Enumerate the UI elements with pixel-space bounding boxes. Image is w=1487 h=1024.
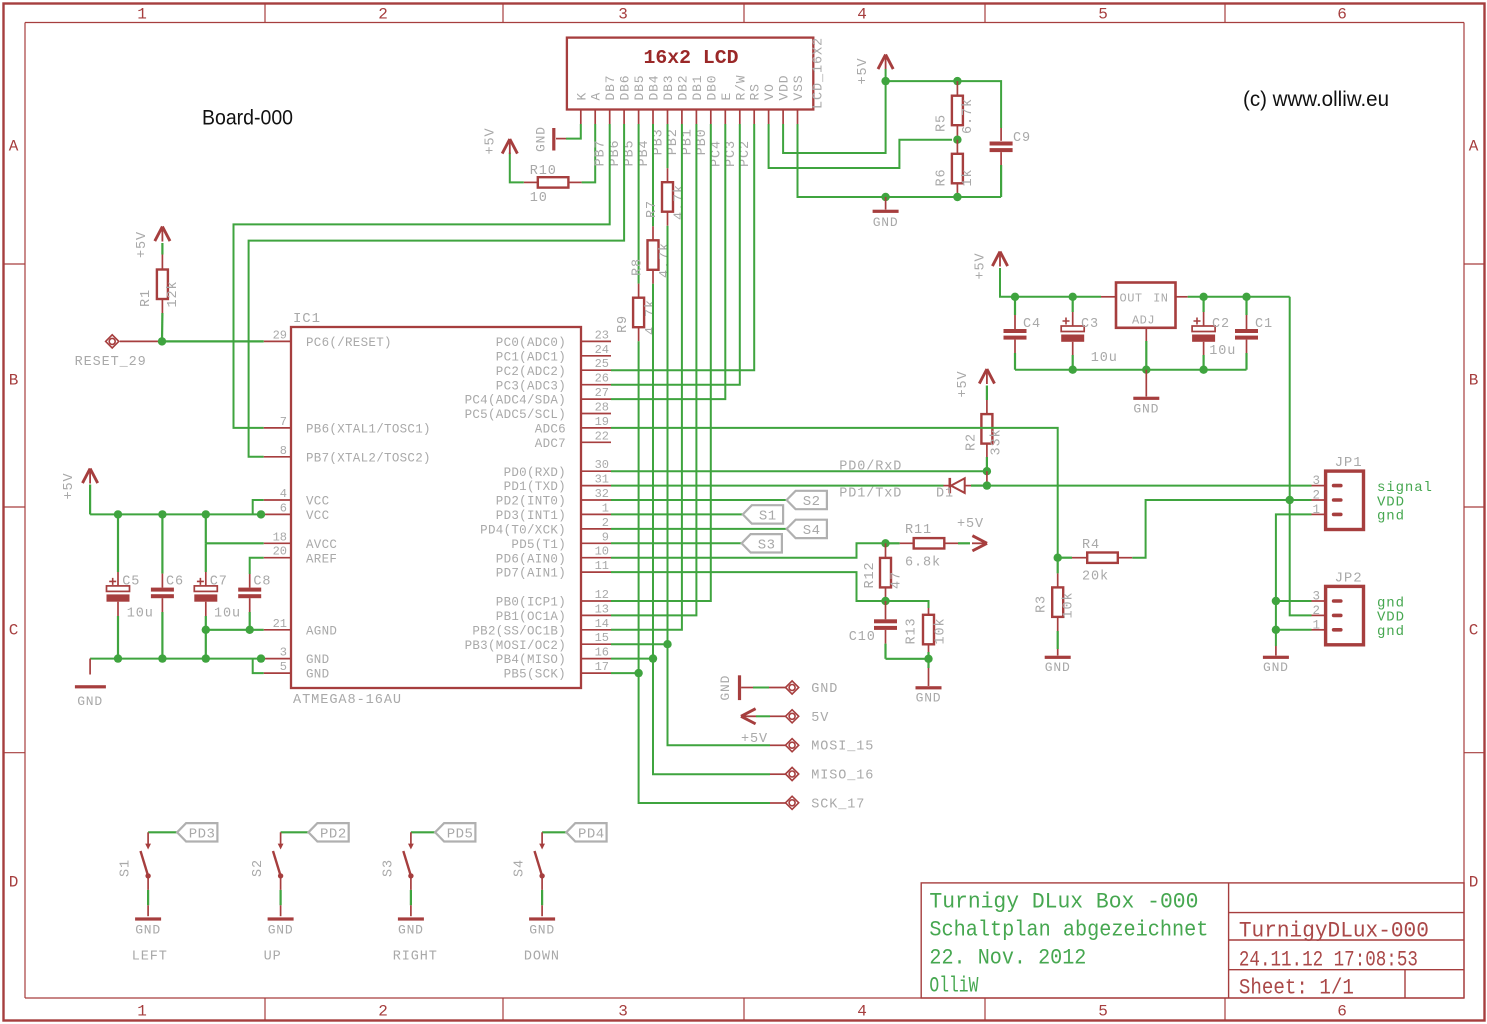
junction C7 AGND	[202, 626, 210, 634]
svg-text:10k: 10k	[1062, 591, 1077, 618]
svg-text:4.7k: 4.7k	[673, 184, 688, 220]
capacitor C6	[151, 514, 184, 658]
svg-text:Sheet: 1/1: Sheet: 1/1	[1239, 976, 1354, 1001]
svg-text:VSS: VSS	[791, 75, 806, 101]
wire pin16 to PB4 line	[611, 658, 653, 660]
ground GND left rail	[75, 659, 106, 709]
svg-text:21: 21	[273, 617, 287, 631]
wire K to GND	[556, 124, 581, 139]
svg-text:PD5: PD5	[447, 826, 474, 842]
svg-text:10k: 10k	[934, 617, 949, 644]
junction R2 PD0	[983, 467, 991, 475]
pad SCK_17	[786, 796, 866, 812]
ground GND pad symbol	[718, 675, 741, 701]
junction C1 top	[1242, 293, 1250, 301]
junction PB3 pin15	[663, 640, 671, 648]
svg-text:4: 4	[857, 1003, 867, 1021]
ground GND at regulator	[1133, 370, 1159, 417]
net label PB5	[623, 139, 638, 166]
supply +5V above VDD rail	[856, 55, 893, 85]
svg-text:C7: C7	[210, 575, 228, 590]
wire net PC4 E to pin27	[611, 124, 725, 399]
svg-text:AVCC: AVCC	[306, 538, 337, 552]
svg-text:PB5(SCK): PB5(SCK)	[504, 668, 566, 682]
net label PB3	[652, 128, 667, 155]
svg-text:PD3: PD3	[189, 826, 216, 842]
svg-text:24.11.12 17:08:53: 24.11.12 17:08:53	[1239, 948, 1418, 973]
junction C6 top	[158, 510, 166, 518]
svg-text:D: D	[1469, 874, 1479, 892]
svg-text:3: 3	[1312, 474, 1320, 488]
wire net PB3 upper	[667, 124, 669, 168]
wire JP1 pin2 stub	[1290, 499, 1326, 501]
resistor R5 6.7k	[935, 81, 976, 140]
net label PB0	[695, 128, 710, 155]
supply +5V above R1	[135, 227, 170, 259]
junction JP2 pin3	[1272, 597, 1280, 605]
wire JP1 pin1 to ground rail	[1276, 514, 1326, 646]
svg-text:PB3(MOSI/OC2): PB3(MOSI/OC2)	[465, 639, 566, 653]
svg-text:+5V: +5V	[956, 370, 971, 397]
svg-text:R3: R3	[1035, 595, 1050, 613]
wire pin10 PD6 to R11 node	[611, 543, 886, 557]
resistor R3 10k	[1035, 558, 1077, 649]
svg-text:R7: R7	[645, 200, 660, 218]
voltage regulator U1 OUT IN ADJ	[1116, 283, 1176, 328]
svg-text:20k: 20k	[1082, 570, 1109, 585]
wire net PB5 lower to pin17 and SCK	[639, 341, 786, 803]
supply +5V at R10	[484, 127, 518, 154]
resistor R8 4.7k	[630, 226, 673, 283]
svg-text:DB2: DB2	[675, 75, 690, 101]
wire VDD to +5V	[783, 81, 886, 153]
wire net PB7 DB7 to XTAL1	[234, 124, 610, 428]
title block text TurnigyDLux-000	[1239, 919, 1429, 944]
svg-text:R12: R12	[863, 561, 878, 588]
net label PB2	[666, 128, 681, 155]
wire net PB2 DB2 to pin14	[611, 124, 682, 630]
svg-text:10u: 10u	[127, 607, 154, 622]
svg-text:S2: S2	[803, 494, 821, 510]
capacitor C5 10u polarized	[107, 514, 154, 658]
svg-text:4.7k: 4.7k	[658, 242, 673, 278]
svg-text:3: 3	[618, 6, 628, 24]
resistor R2 33k	[965, 400, 1005, 471]
svg-text:5: 5	[280, 660, 287, 674]
wire ADJ to ground	[1145, 328, 1147, 370]
label LCD_16X2	[812, 37, 827, 109]
wire regulator ground rail	[1015, 369, 1247, 371]
svg-text:R9: R9	[616, 315, 631, 333]
IC1 right pin stubs and numbers	[581, 328, 611, 674]
wire pin15 to PB3 line	[611, 643, 668, 645]
capacitor C3 10u polarized	[1061, 297, 1118, 370]
svg-text:22. Nov. 2012: 22. Nov. 2012	[929, 946, 1086, 971]
svg-text:1: 1	[137, 6, 147, 24]
svg-text:22: 22	[595, 429, 609, 443]
svg-text:R10: R10	[530, 164, 557, 179]
svg-text:PC0(ADC0): PC0(ADC0)	[496, 336, 566, 350]
svg-text:DB3: DB3	[661, 75, 676, 101]
svg-text:27: 27	[595, 386, 609, 400]
junction GND rail left	[881, 193, 889, 201]
svg-text:1k: 1k	[961, 168, 976, 186]
capacitor C2 10u polarized	[1192, 297, 1236, 370]
junction C3 top	[1069, 293, 1077, 301]
junction R12 C10 R13	[881, 597, 889, 605]
svg-text:33k: 33k	[989, 428, 1004, 455]
wire RESET to pin29	[120, 340, 264, 342]
text (c) www.olliw.eu	[1243, 88, 1389, 111]
svg-text:DOWN: DOWN	[524, 950, 560, 965]
svg-text:D: D	[9, 874, 19, 892]
svg-text:DB6: DB6	[618, 75, 633, 101]
svg-text:gnd: gnd	[1377, 624, 1405, 640]
svg-text:PC3(ADC3): PC3(ADC3)	[496, 379, 566, 393]
svg-text:16: 16	[595, 646, 609, 660]
svg-text:GND: GND	[1133, 402, 1159, 417]
flag S4	[787, 520, 827, 539]
svg-text:C3: C3	[1081, 317, 1099, 332]
svg-text:Turnigy DLux Box -000: Turnigy DLux Box -000	[929, 889, 1198, 914]
junction C3 bottom	[1069, 366, 1077, 374]
wire regulator IN rail	[1176, 296, 1290, 298]
svg-text:10u: 10u	[214, 607, 241, 622]
svg-text:1: 1	[602, 501, 609, 515]
svg-text:+5V: +5V	[957, 517, 984, 532]
capacitor C1	[1235, 297, 1273, 370]
junction PB4 pin16	[649, 654, 657, 662]
wire +5V rail to R5 and C9	[886, 81, 1002, 141]
svg-text:OlliW: OlliW	[929, 974, 979, 999]
svg-text:GND: GND	[306, 653, 329, 667]
svg-text:2: 2	[1312, 604, 1320, 618]
junction +5V VDD	[881, 77, 889, 85]
svg-text:VDD: VDD	[777, 75, 792, 101]
svg-text:IC1: IC1	[293, 311, 321, 327]
svg-text:6.7k: 6.7k	[961, 98, 976, 134]
svg-text:7: 7	[280, 415, 287, 429]
IC U1 IC1 ATMEGA8-16AU box	[291, 311, 581, 708]
svg-text:15: 15	[595, 631, 609, 645]
svg-text:+5V: +5V	[484, 127, 499, 154]
capacitor C9	[990, 131, 1031, 197]
svg-text:B: B	[1469, 372, 1479, 390]
svg-text:PD2: PD2	[320, 826, 347, 842]
junction C2 top	[1199, 293, 1207, 301]
flag S3	[742, 534, 782, 553]
connector JP2	[1312, 571, 1404, 645]
supply +5V at regulator output	[974, 252, 1008, 280]
svg-text:+5V: +5V	[741, 732, 768, 747]
svg-text:30: 30	[595, 458, 609, 472]
svg-text:GND: GND	[916, 691, 942, 706]
svg-text:VO: VO	[762, 83, 777, 100]
wire +5V to R2	[986, 386, 988, 401]
wire net PC3 R/W to pin26	[611, 124, 740, 385]
junction R5 R6 VO	[953, 136, 961, 144]
svg-text:Schaltplan abgezeichnet: Schaltplan abgezeichnet	[929, 918, 1208, 943]
svg-text:R8: R8	[630, 258, 645, 276]
net label PC4	[709, 140, 724, 167]
svg-text:6: 6	[280, 501, 287, 515]
wire AREF to C8	[250, 558, 264, 588]
svg-text:JP1: JP1	[1335, 455, 1363, 471]
resistor R12 47	[863, 543, 905, 601]
net label PB1	[680, 128, 695, 155]
svg-text:PB7: PB7	[594, 139, 609, 166]
junction ADJ bottom	[1142, 366, 1150, 374]
svg-text:MOSI_15: MOSI_15	[811, 740, 874, 755]
ground GND below R3	[1045, 649, 1071, 675]
wire JP2 pin1 stub	[1276, 629, 1326, 631]
svg-text:R6: R6	[935, 168, 950, 186]
svg-text:4.7k: 4.7k	[644, 299, 659, 335]
svg-text:13: 13	[595, 602, 609, 616]
svg-text:GND: GND	[268, 923, 294, 938]
switch S4 DOWN with flag PD4	[513, 823, 607, 964]
svg-text:DB0: DB0	[704, 75, 719, 101]
switch S3 RIGHT with flag PD5	[381, 823, 475, 964]
svg-text:PC4(ADC4/SDA): PC4(ADC4/SDA)	[465, 394, 566, 408]
svg-text:2: 2	[1312, 489, 1320, 503]
svg-text:C: C	[9, 622, 19, 640]
svg-text:C8: C8	[253, 575, 271, 590]
connector LCD_16X2 16x2 LCD	[567, 38, 813, 110]
svg-text:8: 8	[280, 444, 287, 458]
svg-text:PB0(ICP1): PB0(ICP1)	[496, 596, 566, 610]
svg-text:PD7(AIN1): PD7(AIN1)	[496, 567, 566, 581]
net label PB6	[608, 139, 623, 166]
supply +5V left rail arrow	[62, 469, 98, 500]
svg-text:1: 1	[1312, 618, 1320, 632]
svg-text:PC6(/RESET): PC6(/RESET)	[306, 336, 392, 350]
svg-text:ADC6: ADC6	[535, 423, 566, 437]
svg-text:GND: GND	[77, 694, 103, 709]
svg-text:E: E	[719, 92, 734, 101]
junction D1 PD1	[983, 481, 991, 489]
svg-text:3: 3	[280, 646, 287, 660]
capacitor C8	[238, 575, 271, 630]
svg-text:S4: S4	[803, 523, 821, 539]
svg-text:AREF: AREF	[306, 552, 337, 566]
svg-text:PD1/TxD: PD1/TxD	[839, 487, 902, 502]
junction C6 bottom	[158, 654, 166, 662]
frame row labels right	[1469, 138, 1479, 892]
svg-text:gnd: gnd	[1377, 509, 1405, 525]
wire net PB4 upper	[652, 124, 654, 226]
supply +5V at R2	[956, 369, 995, 398]
junction C5 top	[114, 510, 122, 518]
svg-text:PD0/RxD: PD0/RxD	[839, 459, 902, 474]
svg-text:5: 5	[1098, 1003, 1108, 1021]
svg-text:JP2: JP2	[1335, 571, 1363, 587]
junction R11 R12	[881, 539, 889, 547]
svg-text:GND: GND	[873, 215, 899, 230]
junction R1 RESET	[158, 337, 166, 345]
IC1 pin names	[306, 336, 566, 682]
svg-text:17: 17	[595, 660, 609, 674]
svg-text:+5V: +5V	[62, 472, 77, 499]
wire net PB0 DB0 to pin12	[611, 124, 711, 601]
svg-text:OUT: OUT	[1120, 292, 1143, 306]
capacitor C7 10u polarized	[194, 543, 241, 630]
title block text 22. Nov. 2012	[929, 946, 1086, 971]
svg-text:B: B	[9, 372, 19, 390]
svg-text:6: 6	[1337, 6, 1347, 24]
wire net PB4 lower to pin16 and MISO	[653, 284, 786, 774]
svg-text:GND: GND	[811, 682, 838, 697]
junction VDD JP1 pin2	[1286, 496, 1294, 504]
pad 5V	[786, 710, 830, 726]
svg-text:ATMEGA8-16AU: ATMEGA8-16AU	[293, 693, 402, 708]
svg-text:C9: C9	[1013, 131, 1031, 146]
svg-text:PB1(OC1A): PB1(OC1A)	[496, 610, 566, 624]
svg-text:GND: GND	[718, 675, 733, 701]
svg-text:6.8k: 6.8k	[905, 556, 941, 571]
title block text Turnigy DLux Box -000	[929, 889, 1198, 914]
svg-text:+5V: +5V	[856, 57, 871, 84]
svg-text:GND: GND	[1263, 660, 1289, 675]
wire R12 node to R13 top	[886, 601, 929, 608]
svg-text:C10: C10	[849, 630, 876, 645]
svg-text:DB7: DB7	[603, 75, 618, 101]
junction ADC6 R4 R3	[1054, 554, 1062, 562]
supply 5V arrow left	[741, 709, 756, 724]
svg-text:C5: C5	[122, 575, 140, 590]
svg-text:4: 4	[857, 6, 867, 24]
svg-text:(c) www.olliw.eu: (c) www.olliw.eu	[1243, 88, 1389, 111]
svg-text:32: 32	[595, 487, 609, 501]
svg-text:S2: S2	[251, 859, 266, 877]
svg-text:R/W: R/W	[733, 75, 748, 101]
svg-text:26: 26	[595, 372, 609, 386]
flag S2	[787, 491, 827, 510]
svg-text:PB4(MISO): PB4(MISO)	[496, 653, 566, 667]
svg-text:+5V: +5V	[974, 252, 989, 279]
IC1 left pin stubs and numbers	[264, 328, 291, 674]
svg-text:3: 3	[618, 1003, 628, 1021]
wire net PB1 DB1 to pin13	[611, 124, 696, 615]
junction C8 AGND	[246, 626, 254, 634]
LCD pin stubs	[581, 110, 798, 125]
net label PD1/TxD	[839, 487, 902, 502]
svg-text:18: 18	[273, 530, 287, 544]
junction GND bracket	[257, 654, 265, 662]
svg-text:2: 2	[602, 516, 609, 530]
svg-text:S4: S4	[513, 859, 528, 877]
net label PD0/RxD	[839, 459, 902, 474]
pad GND	[786, 681, 839, 697]
svg-text:4: 4	[280, 487, 287, 501]
svg-text:20: 20	[273, 545, 287, 559]
junction PB5 pin17	[634, 669, 642, 677]
svg-text:PB6(XTAL1/TOSC1): PB6(XTAL1/TOSC1)	[306, 423, 431, 437]
svg-text:PD5(T1): PD5(T1)	[511, 538, 566, 552]
svg-text:12k: 12k	[166, 280, 181, 307]
svg-text:1: 1	[1312, 503, 1320, 517]
svg-text:GND: GND	[398, 923, 424, 938]
svg-text:11: 11	[595, 559, 609, 573]
svg-text:R5: R5	[935, 114, 950, 132]
svg-text:GND: GND	[306, 668, 329, 682]
svg-text:A: A	[9, 138, 19, 156]
wire net PC2 RS to pin25	[611, 124, 754, 370]
svg-text:28: 28	[595, 401, 609, 415]
svg-text:31: 31	[595, 473, 609, 487]
svg-text:14: 14	[595, 617, 609, 631]
wire GND rail bottom	[90, 658, 264, 660]
svg-text:PD6(AIN0): PD6(AIN0)	[496, 552, 566, 566]
frame column labels bottom	[137, 1003, 1347, 1021]
ground GND below JP2	[1263, 646, 1289, 675]
svg-text:PD2(INT0): PD2(INT0)	[496, 495, 566, 509]
wire VO to R5-R6 junction	[769, 124, 952, 168]
svg-text:5V: 5V	[811, 711, 829, 726]
wire 5V to pad	[756, 715, 786, 717]
svg-text:MISO_16: MISO_16	[811, 769, 874, 784]
svg-text:PC1(ADC1): PC1(ADC1)	[496, 350, 566, 364]
svg-text:RESET_29: RESET_29	[75, 355, 147, 370]
svg-text:R13: R13	[905, 617, 920, 644]
svg-text:S3: S3	[758, 537, 776, 553]
ground GND at LCD K	[534, 126, 556, 152]
svg-text:12: 12	[595, 588, 609, 602]
resistor R7 4.7k	[645, 168, 688, 226]
svg-text:PC5(ADC5/SCL): PC5(ADC5/SCL)	[465, 408, 566, 422]
junction C2 bottom	[1199, 366, 1207, 374]
wire +5V to regulator OUT rail	[1000, 268, 1116, 297]
svg-text:ADJ: ADJ	[1132, 314, 1155, 328]
resistor R13 10k	[905, 608, 949, 659]
title block text Schaltplan abgezeichnet	[929, 918, 1208, 943]
svg-text:DB1: DB1	[690, 75, 705, 101]
svg-text:RS: RS	[748, 83, 763, 100]
svg-text:Board-000: Board-000	[202, 106, 293, 130]
svg-text:10u: 10u	[1091, 351, 1118, 366]
title block text OlliW	[929, 974, 979, 999]
net label PB4	[637, 139, 652, 166]
svg-text:SCK_17: SCK_17	[811, 797, 865, 812]
svg-text:C6: C6	[166, 575, 184, 590]
svg-text:IN: IN	[1153, 292, 1168, 306]
wire net PB6 DB6 to XTAL2	[249, 124, 624, 457]
resistor R4 20k	[1058, 538, 1133, 585]
svg-text:LCD_16X2: LCD_16X2	[812, 37, 827, 109]
svg-text:VCC: VCC	[306, 495, 329, 509]
wire VDD vertical to JP2 pin2	[1290, 297, 1326, 616]
wire AVCC to C7 line	[206, 514, 264, 543]
svg-text:25: 25	[595, 357, 609, 371]
junction GND rail R6	[953, 193, 961, 201]
svg-text:16x2 LCD: 16x2 LCD	[644, 47, 739, 69]
pad MISO_16	[786, 767, 875, 783]
svg-text:TurnigyDLux-000: TurnigyDLux-000	[1239, 919, 1429, 944]
frame row labels left	[9, 138, 19, 892]
junction C5 bottom	[114, 654, 122, 662]
svg-text:K: K	[574, 92, 589, 101]
svg-text:AGND: AGND	[306, 624, 337, 638]
wire pin32 to flag S2	[611, 499, 787, 501]
wire R10 to +5V	[510, 153, 524, 183]
svg-text:GND: GND	[529, 923, 555, 938]
wire pin17 to PB5 line	[611, 672, 639, 674]
wire +5V rail to VCC	[90, 485, 264, 515]
svg-text:R11: R11	[905, 523, 932, 538]
title block text Sheet: 1/1	[1239, 976, 1354, 1001]
svg-text:C: C	[1469, 622, 1479, 640]
junction C10 R13 ground	[924, 655, 932, 663]
